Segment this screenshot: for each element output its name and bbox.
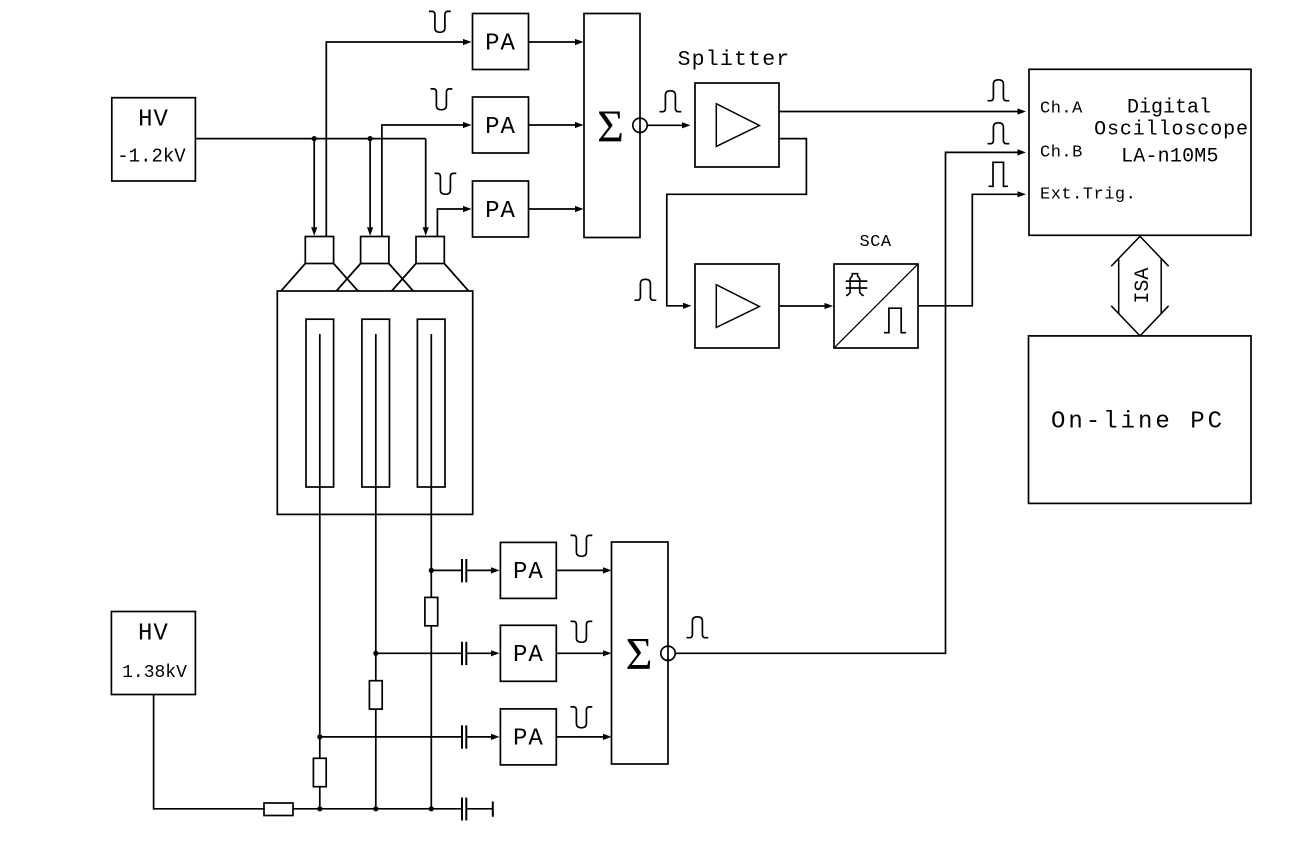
wire row2 anode2 to capacitor [376, 652, 461, 654]
summing amplifier 1 [584, 14, 640, 238]
pulse symbol positive at Ch.A input [988, 80, 1010, 101]
funnel 1 [281, 264, 358, 292]
resistor on anode 2 [369, 681, 382, 709]
summing amplifier 2 [612, 542, 669, 764]
wire PA6 to summer2 [556, 734, 611, 740]
junction anode1 bus [317, 806, 322, 811]
pulse symbol negative at PA2 input [431, 89, 453, 110]
wire HV drop to cathode 3 [423, 139, 429, 236]
pulse symbol positive at Ch.B input [988, 123, 1010, 144]
svg-text:PA: PA [485, 198, 516, 225]
single channel analyzer SCA box [834, 264, 918, 348]
PMT stub 1 [305, 237, 333, 264]
pulse symbol positive at summer1 output [660, 91, 682, 112]
svg-text:PA: PA [485, 31, 516, 58]
junction anode2 row2 [373, 651, 378, 656]
PMT stub 2 [361, 237, 389, 264]
HV supply U1 -1.2kV box [112, 98, 196, 181]
wire PA2 to summer [529, 122, 584, 128]
resistor on anode 1 [313, 758, 326, 786]
wire summer1 to splitter [647, 122, 690, 128]
svg-text:LA-n10M5: LA-n10M5 [1121, 146, 1219, 169]
funnel 2 [336, 264, 413, 292]
junction on HV bus 2 [368, 136, 373, 141]
preamp PA4 [500, 542, 556, 598]
resistor on anode 3 [425, 597, 438, 625]
wire row1 anode3 to capacitor [431, 569, 461, 571]
summer 1 output node circle [633, 118, 647, 132]
wire anode 2 [375, 334, 377, 809]
resistor on HV2 bus [264, 803, 293, 816]
pulse symbol negative at PA6 output [571, 707, 593, 728]
wire HV drop to cathode 2 [367, 139, 373, 236]
svg-text:HV: HV [138, 107, 169, 134]
svg-text:PA: PA [485, 114, 516, 141]
wire summer2 to Ch.B [675, 149, 1026, 653]
wire HV2 to anode bus [154, 695, 461, 809]
capacitor on bus end [462, 798, 493, 821]
svg-text:PA: PA [513, 559, 544, 586]
wire capacitor to PA row1 [467, 567, 499, 573]
coupling capacitor row3 [462, 725, 466, 748]
pulse symbol square at Ext.Trig input [989, 162, 1009, 186]
funnel 3 [392, 264, 469, 292]
svg-text:-1.2kV: -1.2kV [117, 146, 186, 168]
svg-text:1.38kV: 1.38kV [122, 663, 187, 683]
svg-text:Splitter: Splitter [678, 48, 791, 72]
preamp PA6 [500, 709, 556, 765]
svg-text:Ext.Trig.: Ext.Trig. [1040, 185, 1136, 204]
wire signal chamber2 to PA2 [382, 122, 472, 237]
ISA bus double arrow [1111, 236, 1168, 336]
svg-text:Oscilloscope: Oscilloscope [1094, 119, 1249, 142]
detector vessel [277, 291, 472, 514]
svg-text:Σ: Σ [626, 628, 653, 679]
delay amplifier box [695, 264, 779, 348]
on-line PC box [1029, 336, 1252, 504]
wire SCA to Ext.Trig [918, 191, 1026, 306]
wire PA5 to summer2 [556, 650, 611, 656]
junction on HV bus 1 [312, 136, 317, 141]
counter cell 2 [362, 319, 390, 487]
wire splitter to delay amplifier [667, 139, 807, 309]
coupling capacitor row2 [462, 642, 466, 665]
pulse symbol positive at summer2 output [687, 617, 709, 638]
counter cell 1 [306, 319, 334, 487]
coupling capacitor row1 [462, 559, 466, 582]
preamp PA5 [500, 625, 556, 681]
preamp PA2 [473, 97, 529, 153]
wire PA1 to summer [529, 39, 584, 45]
wire row3 anode1 to capacitor [320, 736, 461, 738]
HV supply U2 1.38kV box [111, 612, 195, 695]
svg-text:ISA: ISA [1132, 268, 1155, 304]
svg-text:PA: PA [513, 642, 544, 669]
wire signal chamber3 to PA3 [437, 206, 471, 237]
wire capacitor to PA row3 [467, 734, 499, 740]
wire PA4 to summer2 [556, 567, 611, 573]
wire splitter to Ch.A [779, 108, 1026, 114]
svg-text:Ch.B: Ch.B [1040, 143, 1083, 162]
summer 2 output node circle [661, 646, 675, 660]
svg-text:HV: HV [138, 621, 169, 648]
preamp PA3 [473, 181, 529, 237]
svg-text:Ch.A: Ch.A [1040, 100, 1083, 119]
wire PA3 to summer [529, 206, 584, 212]
splitter amplifier box [695, 83, 779, 167]
svg-text:Σ: Σ [597, 101, 624, 152]
digital oscilloscope box [1029, 69, 1251, 235]
pulse symbol negative at PA4 output [571, 535, 593, 556]
wire delay amp to SCA [779, 303, 833, 309]
pulse symbol positive at delay amp input [635, 279, 657, 300]
pulse symbol negative at PA1 input [429, 11, 451, 32]
junction anode1 row3 [317, 734, 322, 739]
junction anode3 row1 [429, 568, 434, 573]
pulse symbol negative at PA5 output [571, 621, 593, 642]
wire anode 3 [430, 334, 432, 809]
wire HV drop to cathode 1 [311, 139, 317, 236]
pulse symbol negative at PA3 input [435, 173, 457, 194]
wire capacitor to PA row2 [467, 650, 499, 656]
wire HV bus [195, 138, 425, 140]
svg-text:SCA: SCA [859, 233, 891, 252]
svg-text:PA: PA [513, 726, 544, 753]
junction anode3 bus [429, 806, 434, 811]
svg-text:On-line PC: On-line PC [1051, 409, 1225, 436]
wire anode 1 [319, 334, 321, 809]
PMT stub 3 [416, 237, 444, 264]
junction anode2 bus [373, 806, 378, 811]
counter cell 3 [417, 319, 445, 487]
svg-text:Digital: Digital [1127, 97, 1211, 120]
preamp PA1 [473, 14, 529, 70]
wire signal chamber1 to PA1 [326, 39, 471, 237]
